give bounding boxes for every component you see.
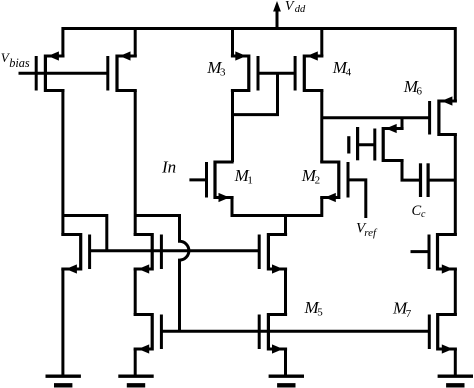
svg-text:6: 6 [417, 86, 423, 98]
svg-text:V: V [285, 0, 295, 14]
svg-text:In: In [161, 158, 176, 177]
svg-text:ref: ref [364, 227, 378, 239]
svg-text:dd: dd [295, 4, 306, 15]
svg-text:bias: bias [9, 56, 30, 70]
svg-text:c: c [421, 209, 426, 220]
svg-text:3: 3 [220, 67, 226, 79]
svg-text:5: 5 [317, 307, 323, 319]
svg-text:2: 2 [315, 175, 321, 187]
svg-text:1: 1 [247, 175, 253, 187]
svg-text:7: 7 [406, 308, 412, 320]
svg-text:C: C [412, 203, 422, 219]
svg-text:4: 4 [346, 67, 352, 79]
